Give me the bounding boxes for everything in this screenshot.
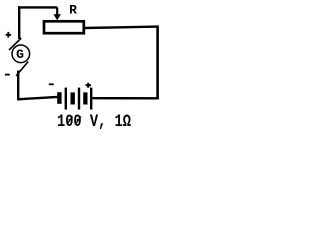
wire: bottom-left horizontal (corner to battery −)	[17, 97, 57, 99]
galvanometer G	[12, 45, 30, 63]
galvanometer bottom lead slash	[16, 62, 28, 76]
polarity + (galvanometer)	[6, 32, 12, 38]
battery − terminal label	[49, 83, 54, 85]
battery + terminal label	[86, 83, 92, 88]
wire: bottom-left vertical (galvanometer lead down to corner)	[17, 71, 19, 101]
svg-text:R: R	[69, 3, 77, 18]
svg-text:100 V, 1Ω: 100 V, 1Ω	[57, 111, 131, 131]
resistor R (rheostat box)	[44, 21, 84, 33]
wire: bottom-right horizontal (corner to battery +)	[93, 97, 159, 100]
wire: right vertical	[156, 26, 159, 100]
svg-text:G: G	[16, 47, 24, 62]
rheostat slider arrow (onto R)	[53, 7, 61, 20]
galvanometer top lead slash	[9, 38, 21, 50]
slashed-zero marks on the two zeros	[67, 117, 81, 125]
wire: top-left vertical (from top corner down to galvanometer lead)	[18, 6, 20, 39]
wire: resistor right to top-right corner	[85, 27, 159, 28]
polarity − (galvanometer)	[5, 74, 10, 76]
wire: top horizontal (top-left corner to slider arrow)	[18, 6, 57, 8]
battery B1 (3 cells, 100 V)	[57, 88, 92, 110]
